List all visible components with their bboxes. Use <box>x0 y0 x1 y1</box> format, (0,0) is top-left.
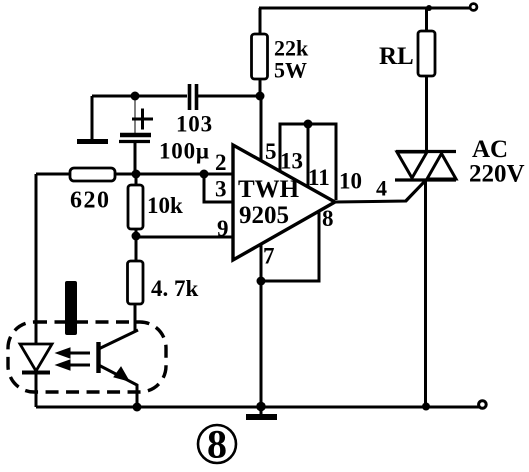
svg-text:TWH: TWH <box>238 176 300 203</box>
label 22k 5W <box>274 36 309 83</box>
label pin 10 <box>339 169 362 194</box>
junction dot pin3 branch <box>200 170 209 179</box>
light bar marker <box>65 281 77 335</box>
svg-text:AC: AC <box>472 136 508 163</box>
label pin 9 <box>217 216 229 241</box>
label AC 220V <box>469 136 525 188</box>
node junction G (triac to bottom rail) <box>422 403 430 411</box>
svg-text:5: 5 <box>265 139 277 164</box>
label 4.7k <box>151 276 199 301</box>
op-amp U1 TWH9205 <box>233 145 335 260</box>
svg-text:9205: 9205 <box>239 202 289 229</box>
wire pin5 <box>260 96 263 161</box>
svg-text:4: 4 <box>376 176 387 201</box>
resistor R4 4.7k <box>128 236 144 331</box>
resistor R1 22k 5W <box>252 8 268 96</box>
resistor R3 10k <box>128 174 143 236</box>
capacitor C2 100u electrolytic <box>119 96 153 174</box>
wire pin2 <box>136 173 233 176</box>
label pin 2 <box>215 150 227 175</box>
capacitor C1 103 <box>190 84 197 110</box>
label 620 <box>70 188 111 214</box>
label 10k <box>147 193 183 218</box>
wire pin7 to ground <box>260 244 263 406</box>
svg-text:RL: RL <box>379 43 414 70</box>
light arrows <box>56 348 90 370</box>
label 100u <box>159 139 210 164</box>
wire pin8 <box>261 211 319 281</box>
svg-text:8: 8 <box>207 422 227 467</box>
label 103 <box>176 112 213 137</box>
wire bottom rail <box>36 406 481 409</box>
junction dot B (100u top) <box>131 92 140 101</box>
svg-text:3: 3 <box>215 177 227 202</box>
resistor R5 RL <box>418 8 435 151</box>
wire top-left horizontal <box>92 95 260 98</box>
ground <box>246 407 277 417</box>
transistor Q1 phototransistor <box>99 304 139 407</box>
svg-text:4. 7k: 4. 7k <box>151 276 199 301</box>
svg-text:13: 13 <box>280 149 303 174</box>
svg-text:2: 2 <box>215 150 227 175</box>
svg-text:10k: 10k <box>147 193 183 218</box>
label pin 8 <box>322 206 334 231</box>
wire pin4 output <box>335 181 425 202</box>
svg-text:100μ: 100μ <box>159 139 210 164</box>
label pin 3 <box>215 177 227 202</box>
svg-text:8: 8 <box>322 206 334 231</box>
svg-text:11: 11 <box>308 165 330 190</box>
diode D1 LED of optocoupler <box>20 322 52 407</box>
svg-text:220V: 220V <box>469 161 525 188</box>
label TWH 9205 <box>238 176 300 229</box>
triac V1 <box>395 152 456 408</box>
wire pin3 branch <box>204 174 233 202</box>
node junction D (10k/4.7k/pin9) <box>132 232 141 241</box>
label pin 13 <box>280 149 303 174</box>
ground (left plate symbol) <box>77 96 108 142</box>
svg-text:103: 103 <box>176 112 213 137</box>
wire left vertical <box>35 174 38 344</box>
svg-text:7: 7 <box>263 244 275 269</box>
svg-text:620: 620 <box>70 188 111 214</box>
wire top rail <box>259 7 471 10</box>
resistor R2 620 <box>36 168 136 181</box>
label pin 7 <box>263 244 275 269</box>
junction dot pin11 tie <box>304 120 313 129</box>
svg-text:10: 10 <box>339 169 362 194</box>
wire pins 13-11-10 tie <box>280 124 336 200</box>
node junction F (pin7 to bottom rail) <box>256 402 266 412</box>
svg-text:5W: 5W <box>274 58 307 83</box>
svg-text:9: 9 <box>217 216 229 241</box>
label pin 11 <box>308 165 330 190</box>
node junction A (22k / C103 / pin5) <box>256 92 265 101</box>
label pin 5 <box>265 139 277 164</box>
wire pin9 <box>136 236 233 239</box>
node junction E (emitter to bottom rail) <box>133 403 142 412</box>
label pin 4 <box>376 176 387 201</box>
junction dot pin7/pin8 <box>257 277 266 286</box>
figure number circled 8 <box>198 422 236 467</box>
node junction C (620/10k/pin2) <box>132 170 141 179</box>
terminal bottom right <box>479 401 487 409</box>
optocoupler U2 dashed box <box>8 322 166 392</box>
terminal top right <box>470 4 477 11</box>
junction top (RL to rail) <box>426 5 432 11</box>
label RL <box>379 43 414 70</box>
